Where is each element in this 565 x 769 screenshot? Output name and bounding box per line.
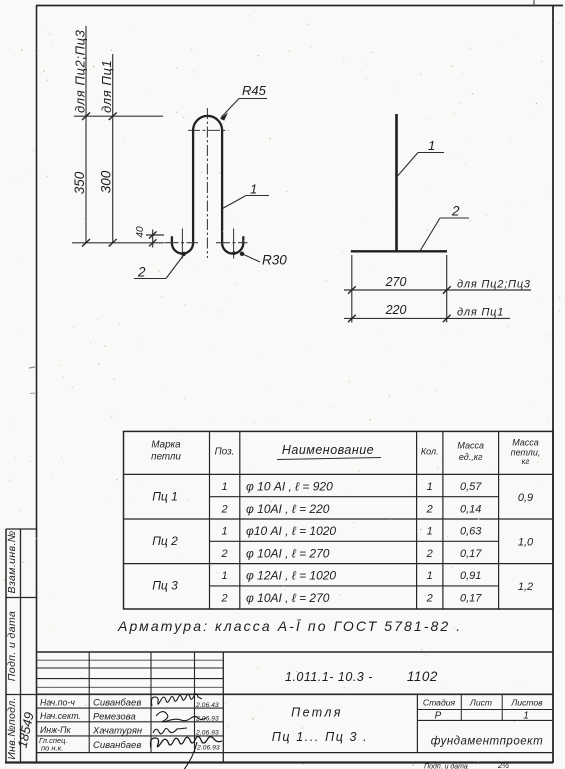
title block bottom row line [37, 752, 554, 754]
side view extension line right [446, 255, 448, 323]
extension line for dlya Pc2 Pc3 [85, 26, 87, 243]
svg-text:0,63: 0,63 [460, 526, 482, 538]
project name line 2 [272, 730, 369, 744]
svg-text:1: 1 [428, 138, 435, 153]
sig row3 name [92, 726, 143, 737]
sig row2 name [93, 712, 136, 723]
dim 270 tick 2 [443, 286, 451, 293]
sig row1 role [40, 698, 75, 708]
svg-text:Хачатурян: Хачатурян [92, 726, 143, 737]
sig row1 name [93, 698, 141, 709]
top dim tick 2 [109, 113, 117, 121]
value stadiya P [435, 711, 442, 722]
svg-text:2: 2 [137, 265, 146, 280]
leader 2 side view diagonal [420, 218, 440, 251]
marka Pc3 [152, 579, 178, 593]
table column line naimenovanie [416, 431, 418, 609]
svg-text:φ10 АI , ℓ = 1020: φ10 АI , ℓ = 1020 [246, 524, 336, 538]
svg-text:Петля: Петля [291, 706, 343, 720]
svg-text:Сиванбаев: Сиванбаев [93, 698, 141, 709]
svg-text:Сиванбаев: Сиванбаев [93, 740, 141, 751]
svg-text:2: 2 [426, 504, 433, 516]
row5 name [246, 569, 336, 583]
svg-text:1,0: 1,0 [518, 537, 534, 549]
project name line 1 [291, 706, 343, 720]
organization name [431, 736, 544, 748]
label 1 side view [428, 138, 435, 153]
svg-text:0,9: 0,9 [518, 492, 533, 504]
label 1 left drawing [250, 182, 257, 197]
dim text 270 [385, 275, 407, 289]
extension line for dlya Pc1 [112, 54, 114, 243]
svg-text:300: 300 [99, 170, 114, 193]
row4 kol [426, 548, 433, 560]
table column line poz [239, 431, 241, 609]
svg-text:φ 10 АI , ℓ = 920: φ 10 АI , ℓ = 920 [246, 480, 333, 494]
svg-text:1: 1 [427, 481, 433, 493]
svg-text:1: 1 [427, 570, 433, 582]
svg-text:Пц 1... Пц 3 .: Пц 1... Пц 3 . [272, 730, 369, 744]
margin strip cell line 2 [6, 694, 37, 696]
dim 40 tick 2 [149, 239, 157, 246]
frame left line [36, 5, 38, 763]
svg-text:2.06.93: 2.06.93 [196, 745, 220, 752]
header Massa petli [511, 438, 541, 467]
group3 massa petli [518, 581, 533, 593]
leader R45 arrow line [220, 99, 239, 121]
svg-text:2: 2 [426, 548, 433, 560]
title block row line a [37, 667, 224, 669]
svg-text:петли,: петли, [511, 448, 541, 458]
bottom dimension line [72, 242, 164, 244]
margin strip cell line 1 [6, 597, 37, 599]
row3 poz [221, 526, 227, 538]
svg-text:Арматура: класса А-Ī по ГО: Арматура: класса А-Ī по ГОСТ 5781-82 . [117, 618, 462, 634]
label dlya Pc2 Pc3 right [457, 279, 531, 291]
title block top line [37, 651, 554, 653]
row5 massa [460, 570, 481, 582]
row1 massa [460, 481, 482, 493]
bottom dim tick 2 [109, 239, 117, 247]
svg-text:270: 270 [385, 275, 407, 289]
svg-text:Подп. и дата: Подп. и дата [6, 611, 18, 682]
document number [285, 669, 438, 684]
svg-text:Пц 2: Пц 2 [152, 534, 178, 548]
top dim tick 1 [82, 113, 90, 121]
sig row4 name [93, 740, 141, 751]
header List [469, 698, 492, 708]
row1 name [246, 480, 333, 494]
stadiya grid line under header [417, 709, 553, 711]
svg-text:Нач.сект.: Нач.сект. [40, 711, 81, 721]
sig row1 date [195, 702, 219, 709]
fold mark tick above frame [533, 0, 535, 6]
row6 name [246, 591, 330, 605]
svg-text:кг: кг [522, 457, 530, 466]
svg-text:Наименование: Наименование [282, 443, 374, 457]
dim 40 tick 1 [149, 232, 157, 239]
frame bottom line [5, 761, 553, 763]
sig row2 date [195, 716, 219, 723]
svg-text:R30: R30 [262, 253, 287, 268]
row4 massa [460, 548, 482, 560]
marka Pc2 [152, 534, 178, 548]
svg-text:φ 10АI , ℓ = 270: φ 10АI , ℓ = 270 [246, 591, 330, 605]
svg-text:R45: R45 [242, 83, 267, 98]
table header bottom line [124, 473, 554, 475]
top dimension line [74, 115, 163, 117]
svg-text:40: 40 [135, 226, 146, 238]
header Kol [421, 447, 439, 457]
frame top line [36, 5, 563, 7]
header Stadiya [423, 698, 456, 708]
svg-text:петли: петли [151, 452, 181, 463]
leader R30 diagonal [232, 251, 260, 262]
stadiya grid line under values [417, 719, 553, 721]
svg-text:1: 1 [523, 711, 529, 722]
leader R45 shelf [239, 98, 267, 100]
header Listov [510, 698, 543, 708]
title block column line 1 [88, 652, 90, 753]
svg-text:0,14: 0,14 [460, 504, 481, 516]
title block column line 2 [150, 652, 152, 753]
leader 2 side view shelf [440, 217, 469, 219]
svg-text:0,91: 0,91 [460, 570, 481, 582]
signature row line 3 [37, 735, 224, 737]
row5 poz [221, 570, 227, 582]
svg-text:2½: 2½ [497, 761, 509, 769]
right hook centerline horizontal [216, 242, 248, 244]
row2 name [246, 502, 330, 516]
row2 kol [426, 504, 433, 516]
frame right line [552, 5, 554, 763]
leader 1 side view shelf [418, 152, 444, 154]
svg-text:1: 1 [427, 526, 433, 538]
dim text 350 [72, 171, 87, 194]
side view extension line left [351, 255, 353, 323]
table column line marka [209, 431, 211, 609]
svg-text:Инж-Пк: Инж-Пк [40, 725, 71, 735]
svg-text:для Пц2;Пц3: для Пц2;Пц3 [457, 279, 531, 291]
dim line 270 with label shelf [344, 289, 531, 291]
svg-text:1,2: 1,2 [518, 581, 533, 593]
row3 massa [460, 526, 482, 538]
svg-text:Подп. и дата: Подп. и дата [424, 763, 468, 769]
note armatura [117, 618, 462, 634]
svg-text:350: 350 [72, 171, 87, 194]
table row line 3 partial [210, 585, 499, 587]
group2 massa petli [518, 537, 534, 549]
sig row1 signature [151, 694, 202, 706]
table column line kol [442, 431, 444, 609]
title block column line 3 [194, 652, 196, 753]
dim 220 tick 1 [348, 315, 356, 322]
svg-text:Р: Р [435, 711, 442, 722]
table group line Pc2 bottom [124, 563, 554, 565]
left hook centerline horizontal [165, 242, 199, 244]
leader 1 left drawing diagonal [223, 196, 247, 209]
svg-text:фундаментпроект: фундаментпроект [431, 736, 544, 748]
table column line massa ed [498, 431, 500, 609]
signature row line 1 [37, 707, 224, 709]
value listov 1 [523, 711, 529, 722]
sig row3 signature [153, 728, 187, 734]
margin strip divider line [20, 529, 22, 763]
row1 kol [427, 481, 433, 493]
svg-text:для Пц1: для Пц1 [99, 60, 114, 113]
dim 40 shelf line [146, 234, 164, 236]
header Naimenovanie [277, 443, 381, 460]
svg-text:2.06.43: 2.06.43 [195, 702, 219, 709]
row1 poz [221, 481, 227, 493]
hairpin loop bar pos 1 [172, 116, 243, 254]
svg-text:1: 1 [250, 182, 257, 197]
side view bar 2 horizontal [351, 250, 447, 252]
hairpin centerline vertical [206, 108, 208, 258]
marka Pc1 [152, 490, 178, 504]
svg-text:0,57: 0,57 [460, 481, 482, 493]
label Vzam.inv [6, 530, 18, 593]
row6 kol [426, 593, 433, 605]
title block half row line b [37, 686, 224, 688]
svg-text:2: 2 [426, 593, 433, 605]
label R45 [242, 83, 267, 98]
svg-text:по н.к.: по н.к. [41, 744, 63, 753]
svg-text:для Пц1: для Пц1 [457, 307, 504, 319]
svg-text:φ 10АI , ℓ = 220: φ 10АI , ℓ = 220 [246, 502, 330, 516]
leader 1 side view diagonal [398, 153, 419, 177]
bottom dim tick 1 [82, 239, 90, 247]
sig row3 date [195, 730, 219, 737]
signature row line 2 [37, 721, 224, 723]
svg-text:2: 2 [220, 548, 227, 560]
right hook cross bar centerline vertical [233, 229, 235, 259]
svg-text:Листов: Листов [510, 698, 543, 708]
svg-text:Взам.инв.№: Взам.инв.№ [6, 530, 18, 593]
svg-text:2: 2 [220, 593, 227, 605]
row2 massa [460, 504, 481, 516]
table group line Pc1 bottom [124, 518, 554, 520]
faint left edge marks [29, 367, 35, 394]
svg-text:220: 220 [385, 303, 407, 317]
svg-text:Масса: Масса [512, 438, 539, 448]
header Poz [215, 447, 235, 458]
label Inv N podl [6, 697, 18, 759]
svg-text:1: 1 [221, 526, 227, 538]
svg-text:1.011.1- 10.3 -1102: 1.011.1- 10.3 -1102 [285, 669, 438, 684]
leader 1 left drawing shelf [246, 195, 269, 197]
svg-text:Пц 1: Пц 1 [152, 490, 178, 504]
svg-text:2: 2 [220, 504, 227, 516]
left hook cross bar centerline vertical [181, 229, 183, 259]
row3 name [246, 524, 336, 538]
leader 2 left drawing shelf [134, 278, 166, 280]
table row line 2 partial [210, 540, 499, 542]
row5 kol [427, 570, 433, 582]
dim text 220 [385, 303, 407, 317]
svg-text:2.06.93: 2.06.93 [195, 716, 219, 723]
svg-text:φ 10АI , ℓ = 270: φ 10АI , ℓ = 270 [246, 547, 330, 561]
sig row4 role [39, 736, 67, 753]
header Marka petli [151, 440, 181, 463]
sig row4 signature [151, 737, 223, 769]
svg-text:Стадия: Стадия [423, 698, 456, 708]
svg-text:Лист: Лист [469, 698, 492, 708]
spec table outline [124, 431, 554, 609]
dim line 220 with label shelf [344, 317, 510, 319]
title block column line 5 [416, 694, 418, 752]
title block row line b [37, 678, 224, 680]
svg-text:Кол.: Кол. [421, 447, 439, 457]
svg-text:φ 12АI , ℓ = 1020: φ 12АI , ℓ = 1020 [246, 569, 336, 583]
title block signature top line [37, 693, 554, 695]
side view bar 1 vertical [395, 114, 398, 251]
label dlya Pc2 Pc3 [73, 29, 88, 113]
sig row2 signature [156, 712, 206, 722]
row6 massa [460, 593, 482, 605]
svg-text:1: 1 [221, 570, 227, 582]
svg-text:2.06.93: 2.06.93 [195, 730, 219, 737]
stadiya grid column 2 [501, 694, 503, 720]
title block half row line a [37, 659, 224, 661]
header Massa ed [457, 441, 484, 463]
svg-text:0,17: 0,17 [460, 593, 482, 605]
svg-text:Масса: Масса [457, 441, 484, 451]
label 2 side view [451, 204, 460, 219]
svg-text:Пц 3: Пц 3 [152, 579, 178, 593]
svg-text:Нач.по-ч: Нач.по-ч [40, 698, 75, 708]
svg-text:Инв.№подл.: Инв.№подл. [6, 697, 18, 759]
sig row4 date [196, 745, 220, 752]
dim text 300 [99, 170, 114, 193]
title block column line 4 [222, 652, 224, 763]
dim 220 tick 2 [443, 315, 451, 322]
dim text 40 [135, 226, 146, 238]
hairpin top centerline horizontal [188, 129, 229, 131]
sig row2 role [40, 711, 81, 721]
label R30 [262, 253, 287, 268]
svg-text:2: 2 [451, 204, 460, 219]
label dlya Pc1 [99, 60, 114, 113]
dim 270 tick 1 [348, 286, 356, 293]
row4 poz [220, 548, 227, 560]
margin strip top line [6, 528, 37, 530]
leader 2 left drawing diagonal [166, 252, 186, 279]
label 2 left drawing [137, 265, 146, 280]
row4 name [246, 547, 330, 561]
row6 poz [220, 593, 227, 605]
svg-text:1: 1 [221, 481, 227, 493]
stadiya grid column 1 [460, 694, 462, 720]
svg-text:Марка: Марка [151, 440, 181, 451]
svg-text:0,17: 0,17 [460, 548, 482, 560]
svg-text:Ремезова: Ремезова [93, 712, 136, 723]
svg-text:Поз.: Поз. [215, 447, 235, 458]
inventory number 18549 [15, 711, 37, 749]
svg-text:ед.,кг: ед.,кг [459, 452, 483, 462]
label Podp i data [6, 611, 18, 682]
svg-text:для Пц2;Пц3: для Пц2;Пц3 [73, 29, 88, 113]
dim 40 extension [152, 230, 154, 248]
sig row3 role [40, 725, 71, 735]
label dlya Pc1 right [457, 307, 504, 319]
faint stamp marks below frame [424, 761, 509, 769]
row2 poz [220, 504, 227, 516]
row3 kol [427, 526, 433, 538]
group1 massa petli [518, 492, 533, 504]
margin strip left line [5, 529, 7, 763]
table row line 1 partial [210, 496, 499, 498]
